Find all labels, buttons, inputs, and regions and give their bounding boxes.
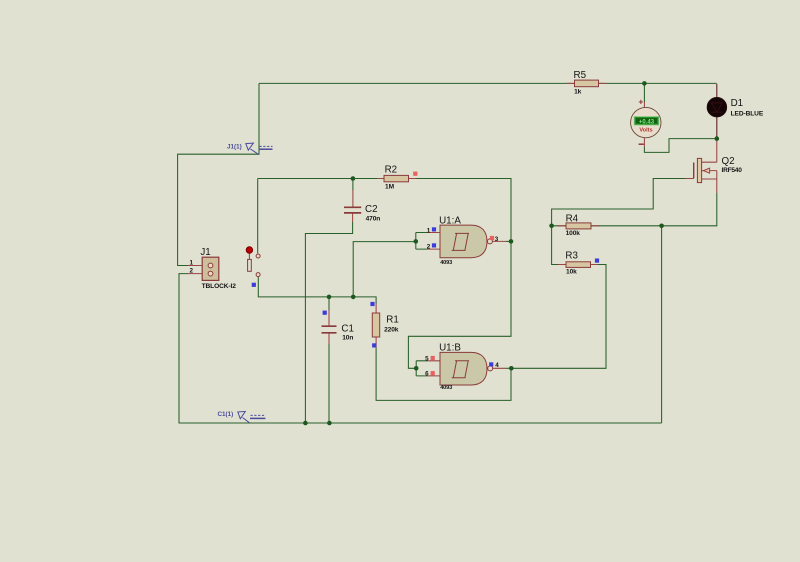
svg-text:C2: C2 xyxy=(365,204,378,215)
svg-text:J1: J1 xyxy=(200,247,210,258)
svg-text:C1(1): C1(1) xyxy=(218,411,234,418)
svg-text:D1: D1 xyxy=(731,98,744,109)
svg-text:2: 2 xyxy=(427,243,431,250)
svg-text:R2: R2 xyxy=(385,165,398,176)
svg-text:R4: R4 xyxy=(566,214,579,225)
svg-text:4093: 4093 xyxy=(440,260,452,266)
svg-text:1M: 1M xyxy=(385,183,395,190)
svg-text:3: 3 xyxy=(495,236,499,243)
svg-text:10n: 10n xyxy=(342,335,353,342)
svg-text:1: 1 xyxy=(427,227,431,234)
svg-text:J1(1): J1(1) xyxy=(227,144,242,151)
svg-text:220k: 220k xyxy=(384,326,399,333)
svg-text:U1:A: U1:A xyxy=(439,215,461,226)
svg-text:4: 4 xyxy=(495,362,499,369)
svg-text:C1: C1 xyxy=(341,324,354,335)
svg-text:1k: 1k xyxy=(574,89,582,96)
svg-text:+: + xyxy=(638,96,643,106)
svg-text:10k: 10k xyxy=(566,269,577,276)
svg-text:4093: 4093 xyxy=(440,385,452,391)
svg-text:R3: R3 xyxy=(565,251,578,262)
svg-text:IRF540: IRF540 xyxy=(722,167,743,174)
svg-text:LED-BLUE: LED-BLUE xyxy=(731,110,764,117)
svg-text:5: 5 xyxy=(425,355,429,362)
svg-text:1: 1 xyxy=(189,259,193,266)
svg-text:+0.43: +0.43 xyxy=(639,119,655,125)
svg-text:2: 2 xyxy=(189,267,193,274)
svg-text:R1: R1 xyxy=(386,315,399,326)
svg-text:TBLOCK-I2: TBLOCK-I2 xyxy=(202,283,237,290)
svg-text:470n: 470n xyxy=(366,215,381,222)
svg-text:U1:B: U1:B xyxy=(439,343,461,354)
svg-text:6: 6 xyxy=(425,371,429,378)
svg-text:R5: R5 xyxy=(574,70,587,81)
svg-text:Volts: Volts xyxy=(639,128,652,134)
svg-text:Q2: Q2 xyxy=(722,156,735,167)
svg-text:100k: 100k xyxy=(566,230,581,237)
